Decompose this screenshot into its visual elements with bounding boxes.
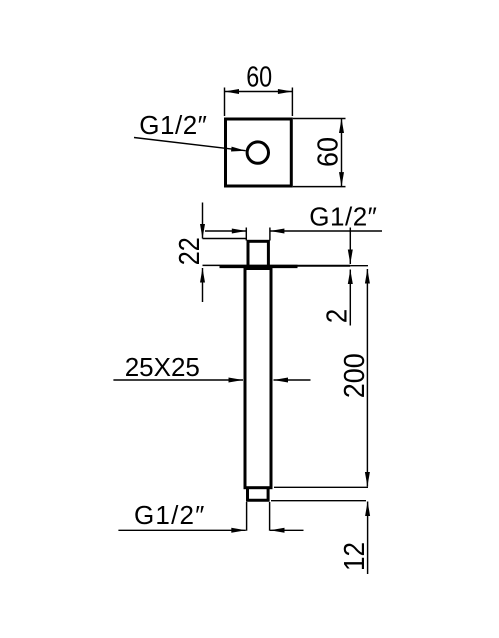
svg-text:200: 200 — [339, 353, 371, 398]
dimension 22 (nipple height) — [203, 203, 247, 303]
svg-text:60: 60 — [313, 137, 345, 167]
svg-text:G1/2″: G1/2″ — [134, 500, 206, 530]
side view: bottom connector (G1/2 thread) — [248, 488, 269, 501]
dimension 200 (tube length) — [366, 269, 368, 487]
side view: square tube arm 25x25 — [245, 269, 271, 488]
extension line at connector bottom — [271, 500, 366, 502]
extension line at tube bottom — [274, 486, 368, 488]
svg-text:22: 22 — [174, 237, 206, 265]
top view: faceplate square — [226, 119, 292, 186]
svg-text:12: 12 — [339, 542, 371, 571]
dimension 12 (connector height) — [367, 502, 369, 575]
svg-text:60: 60 — [246, 62, 272, 94]
side view: ceiling flange plate — [220, 265, 298, 269]
svg-text:G1/2″: G1/2″ — [139, 110, 207, 140]
side view: top nipple (G1/2 thread) — [248, 241, 268, 266]
top view: inlet hole circle — [247, 142, 268, 163]
svg-text:25X25: 25X25 — [125, 352, 200, 382]
dimension 60 (top width) — [225, 88, 293, 117]
svg-text:2: 2 — [322, 309, 354, 324]
dimension 60 (right height) — [293, 119, 346, 187]
dimension 2 (flange thickness) — [298, 228, 369, 326]
svg-text:G1/2″: G1/2″ — [309, 202, 377, 232]
